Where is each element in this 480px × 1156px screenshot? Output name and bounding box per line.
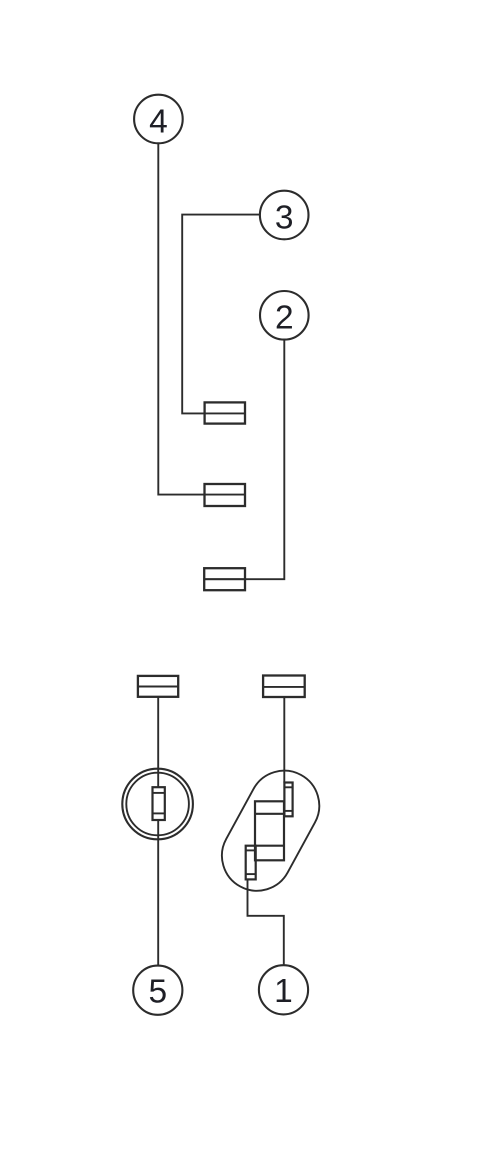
svg-text:5: 5 [148,973,167,1010]
callout circle 2 [260,291,309,340]
fuse holder inner ring [126,773,189,836]
wire from fuse to callout 5 [157,820,159,966]
fuse holder outer ring [122,769,193,840]
terminal T4 [138,676,178,697]
callout circle 4 [134,95,183,144]
wire from callout 4 to terminal T2 [158,143,245,494]
wire from terminal T4 to fuse [157,697,159,787]
svg-text:3: 3 [275,200,294,237]
switch housing (tilted stadium) [209,758,331,903]
svg-text:4: 4 [149,104,168,141]
switch body line lower [255,845,284,847]
wire from callout 3 to terminal T1 [182,215,260,414]
terminal T4 mid line [138,686,178,688]
svg-text:1: 1 [274,973,293,1010]
callout circle 1 [259,965,308,1014]
callout circle 5 [133,966,182,1015]
wire from terminal T5 to switch [283,697,285,783]
clip upper line bottom [284,810,292,812]
clip lower line top [246,849,256,851]
terminal T5 mid line [263,686,305,688]
terminal T2 [205,484,246,506]
switch body [255,801,284,860]
svg-text:2: 2 [275,300,294,337]
wire from callout 2 to terminal T3 [204,340,284,580]
terminal T3 mid line [204,578,245,580]
fuse body [153,787,165,820]
terminal T1 [205,402,245,423]
switch body line upper [255,813,284,815]
wire from switch to callout 1 [248,879,284,965]
switch contact clip upper [284,783,292,817]
terminal T5 [263,676,305,698]
clip upper line top [284,786,292,788]
callout circle 3 [260,191,309,240]
clip lower line bottom [246,873,256,875]
fuse cap line bottom [153,812,165,814]
switch contact clip lower [246,846,256,880]
fuse cap line top [153,792,165,794]
terminal T3 [204,568,245,590]
